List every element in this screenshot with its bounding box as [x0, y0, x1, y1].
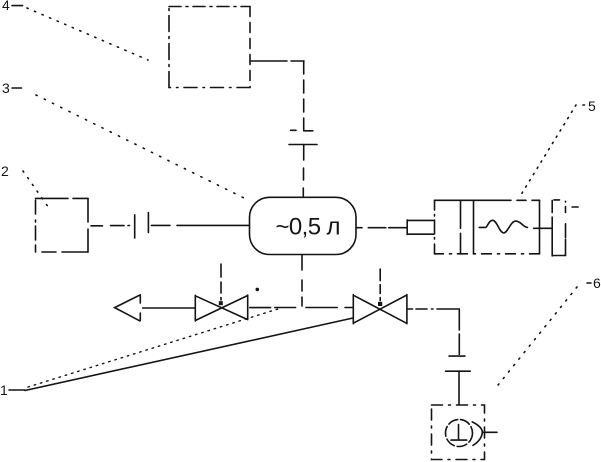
- connector fork lower prong: [407, 233, 433, 235]
- dash before label 6: [587, 282, 591, 284]
- valve V1 control line (dashed up): [220, 264, 222, 300]
- nozzle arc: [472, 422, 482, 445]
- component 5 spring (wavy line): [479, 220, 527, 233]
- tick after label 1: [9, 389, 25, 391]
- svg-text:4: 4: [2, 0, 10, 13]
- pipe union lower: lower plate: [446, 370, 471, 372]
- pipe union lower plate: [289, 144, 317, 146]
- leader line 1 to valve V1 (dotted): [28, 308, 281, 387]
- wire vessel right to component 5 (dash-dot): [356, 227, 407, 229]
- wire valve V1 to valve V2 (dash-dot): [250, 307, 352, 309]
- wire box 2 to union (dash-dot): [91, 225, 130, 227]
- pipe union lower: upper plate: [449, 355, 465, 357]
- component 5 piston plate 1: [460, 200, 462, 254]
- valve V1 stem dot: [219, 301, 223, 305]
- tick after label 3: [12, 87, 22, 89]
- leader line 3 (dotted): [36, 95, 246, 199]
- vertical dashed pipe from box 4: [303, 61, 305, 131]
- valve V2 control line (dashed up): [379, 269, 381, 301]
- svg-text:2: 2: [1, 163, 9, 179]
- component 5 piston plate 2: [473, 200, 475, 254]
- vertical wire down to union: [458, 309, 460, 354]
- tick after label 4: [12, 5, 23, 7]
- gauge circle: [446, 420, 473, 447]
- output line right: [483, 431, 498, 433]
- component 6 box (pump unit): [432, 405, 485, 460]
- dashed box 4 (pressure source): [169, 6, 250, 8]
- right cup bottom edge: [552, 255, 565, 257]
- wire union to vessel left: [151, 224, 249, 226]
- component 5 box (damper): [434, 200, 436, 254]
- right cup outlet dash: [572, 206, 578, 208]
- svg-text:3: 3: [2, 80, 10, 96]
- wire from box 4 to down pipe: [250, 60, 304, 62]
- wire vessel bottom down (dashed): [301, 255, 303, 306]
- wire component 5 to right cup: [534, 227, 552, 229]
- svg-text:1: 1: [0, 382, 8, 398]
- tack symbol base bar: [451, 439, 467, 441]
- valve V1 (shut-off valve): [195, 295, 247, 321]
- wire valve V2 to down pipe (dash-dot with corner): [408, 308, 460, 310]
- valve V2 (shut-off valve): [353, 295, 407, 324]
- leader line 6 (dotted): [494, 287, 577, 390]
- right cup top edge: [554, 199, 560, 201]
- tack symbol vertical: [458, 425, 460, 440]
- right cup left wall: [551, 200, 553, 256]
- exhaust arrow (to atmosphere): [115, 295, 141, 321]
- pipe union upper plate: [291, 129, 313, 132]
- leader line 2 (dotted): [23, 171, 51, 211]
- dot before label 5: [583, 104, 585, 106]
- leader line 4 (dotted): [27, 8, 148, 60]
- pipe union left bar 2: [147, 213, 149, 233]
- wire union to vessel top: [302, 145, 304, 197]
- svg-text:~0,5 л: ~0,5 л: [276, 214, 340, 241]
- wire arrow to valve V1: [143, 307, 195, 309]
- pipe union left bar 1: [134, 215, 136, 238]
- wire union to component 6: [458, 371, 460, 404]
- svg-text:6: 6: [593, 275, 601, 291]
- valve V2 stem dot: [378, 302, 382, 306]
- svg-text:5: 5: [588, 98, 596, 114]
- vessel 0.5 l (rounded chamber): [250, 197, 357, 254]
- connector fork stem: [406, 220, 408, 235]
- connector fork upper prong: [407, 219, 433, 221]
- right cup right wall (dashed upper): [565, 201, 567, 255]
- leader line 5 (dotted): [519, 105, 576, 198]
- leader line 1 to valve V2 (solid): [25, 318, 353, 391]
- junction dot: [255, 288, 259, 292]
- box 2 (transducer): [36, 197, 89, 199]
